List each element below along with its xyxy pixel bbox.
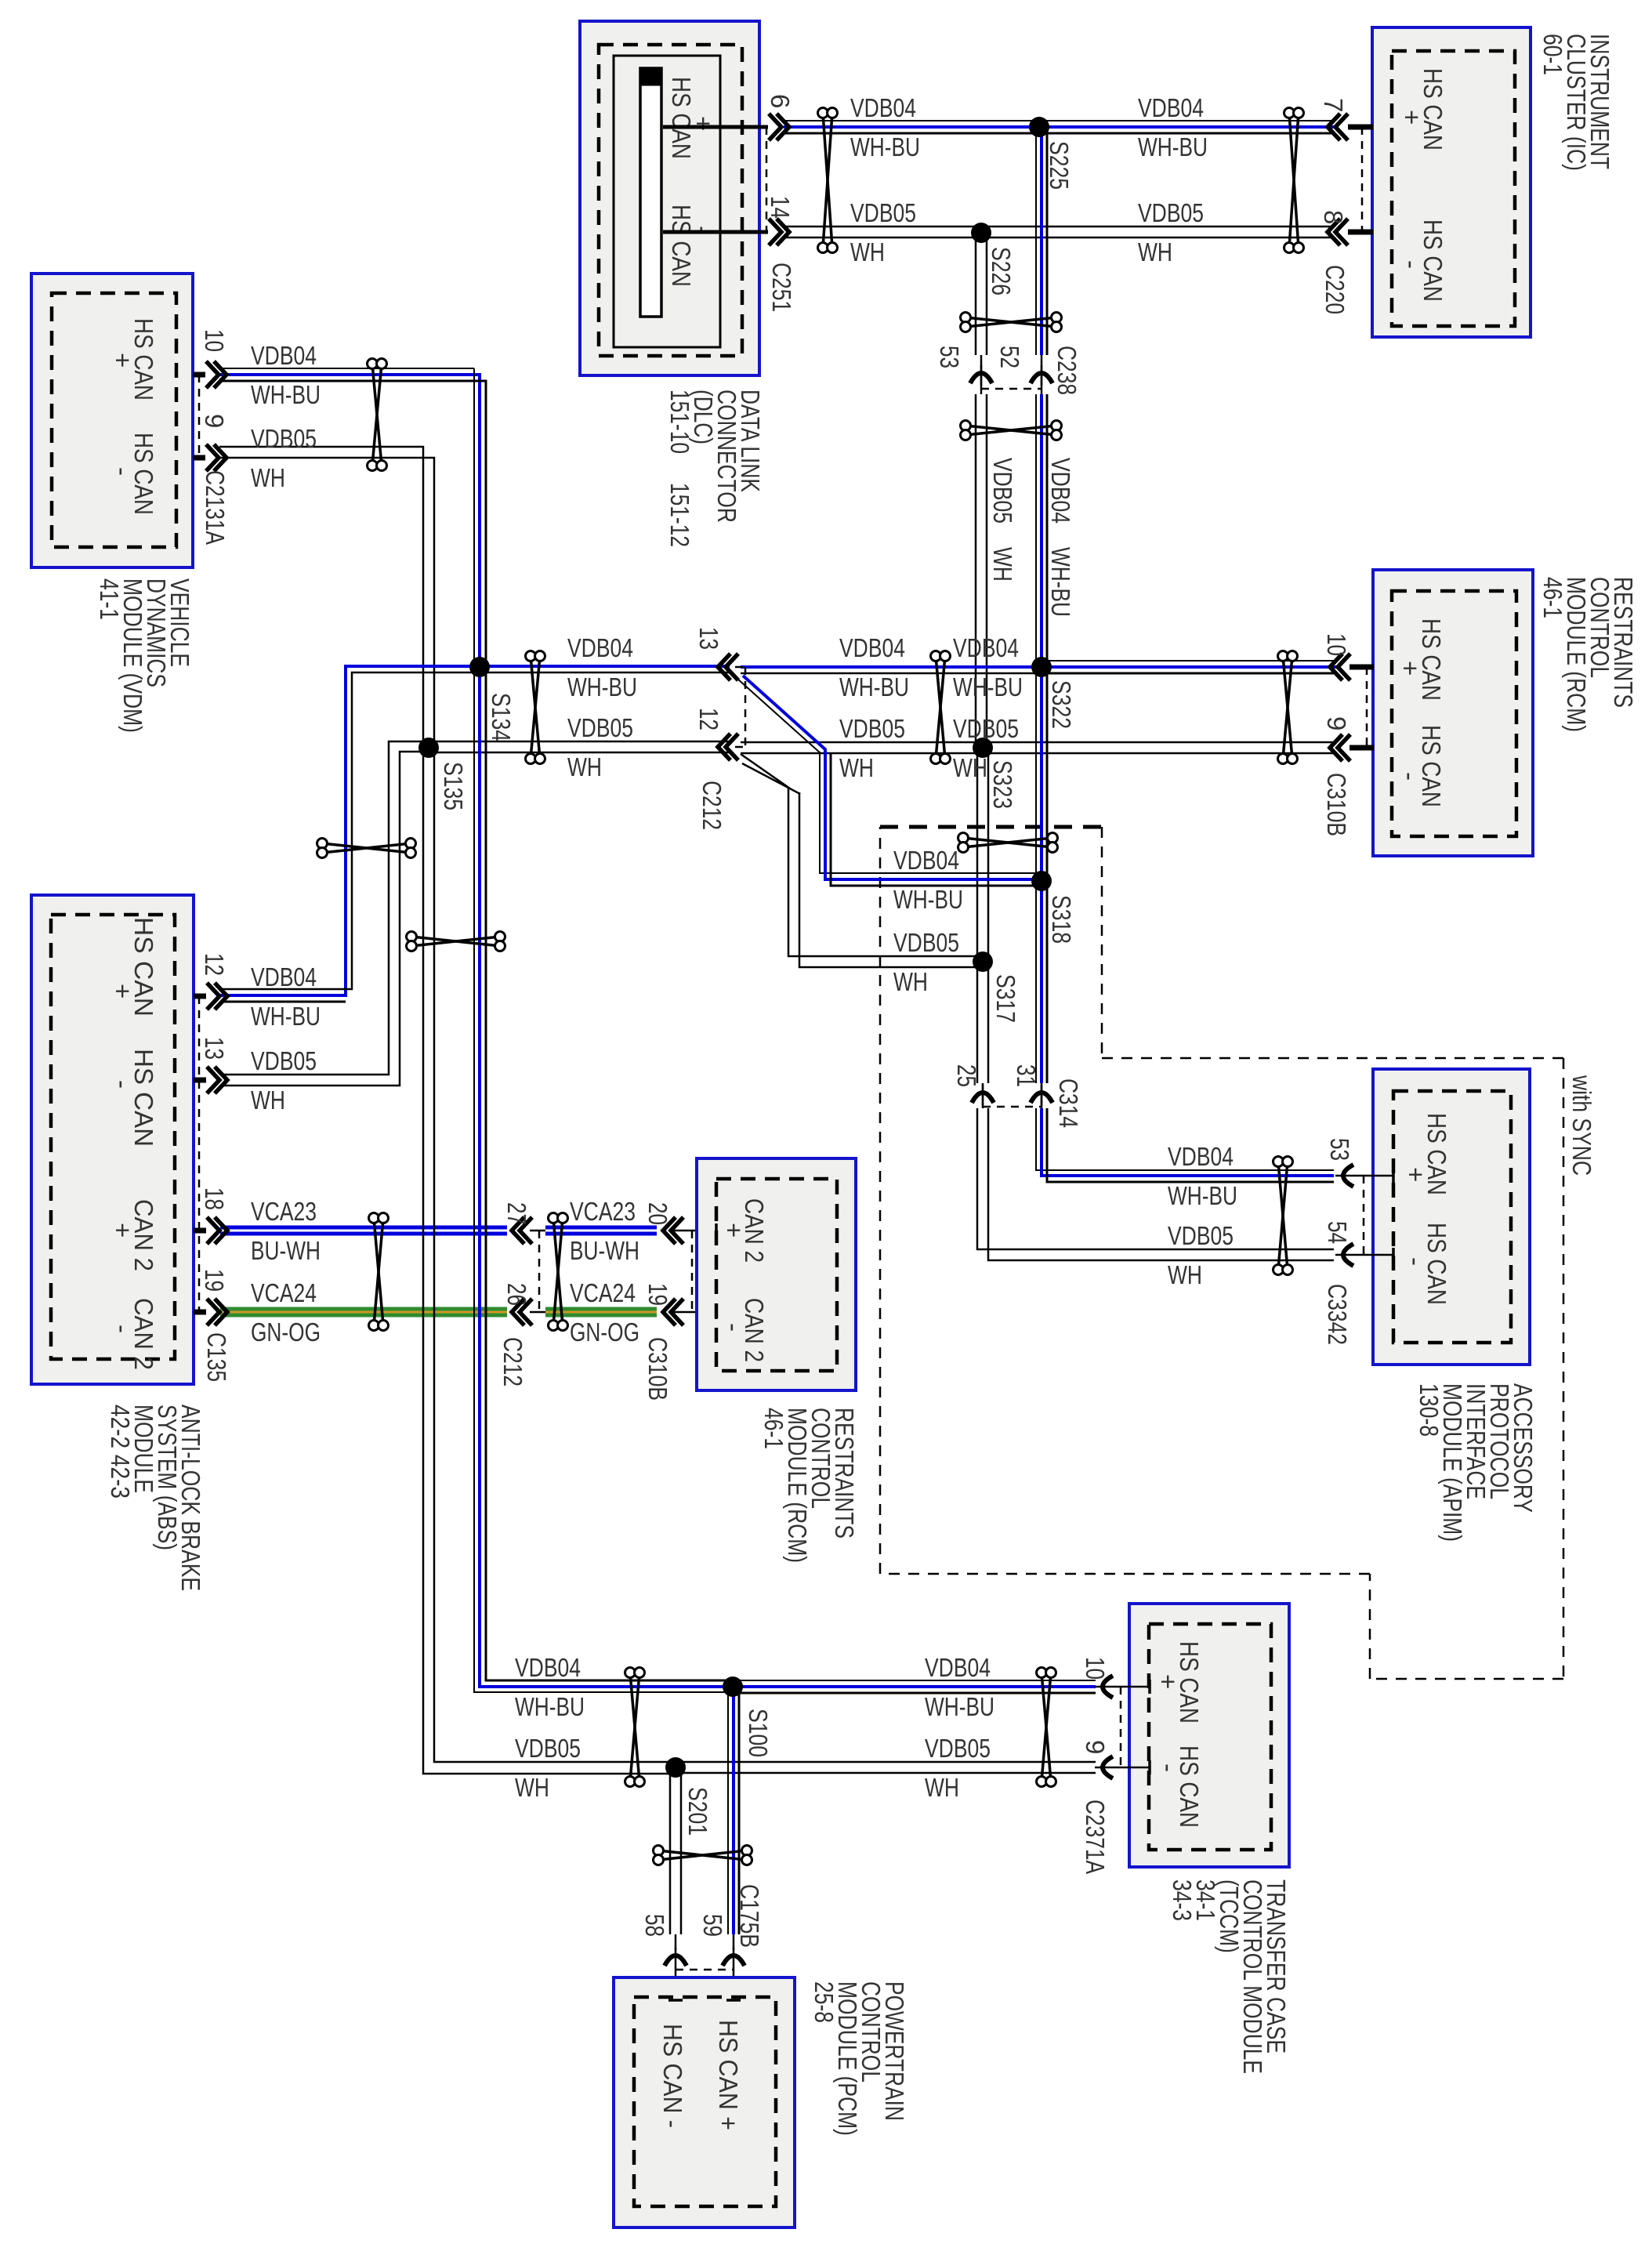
svg-text:WH-BU: WH-BU — [953, 672, 1023, 701]
svg-text:VDB04: VDB04 — [1046, 458, 1075, 524]
svg-text:VCA24: VCA24 — [570, 1278, 636, 1307]
svg-text:WH-BU: WH-BU — [1046, 547, 1075, 617]
wire labels ABS HS CAN pins — [251, 962, 321, 1115]
svg-text:12: 12 — [200, 953, 229, 976]
label with SYNC — [1567, 1075, 1596, 1176]
wire labels S322/S323 to RCM — [953, 633, 1023, 782]
wire VCA24 GN-OG C212 pin26 to RCM pin19 — [545, 1307, 716, 1318]
svg-text:58: 58 — [640, 1914, 669, 1937]
connector C2131A pins VDM — [193, 329, 230, 545]
wire labels VDM to S134/S135 — [251, 341, 321, 492]
wire labels on vertical wires below C238 — [988, 458, 1075, 617]
svg-text:WH-BU: WH-BU — [925, 1692, 994, 1721]
wire labels DLC to S225/S226 — [850, 93, 920, 266]
svg-text:S317: S317 — [991, 974, 1020, 1023]
wire VDB05 WH S201 down to C175B and PCM pin58 — [670, 1767, 681, 2000]
connector C175B pins — [640, 1884, 764, 2000]
connector C238 in-line on vertical wires — [935, 346, 1081, 395]
svg-text:WH: WH — [850, 237, 885, 266]
module box Accessory Protocol Interface Module APIM — [1373, 1069, 1530, 1365]
wire VDB05 WH S201 to TCCM pin9 — [676, 1762, 1096, 1773]
svg-text:42-2 42-3: 42-2 42-3 — [106, 1405, 135, 1499]
wire VDB05 WH S323 to RCM pin9 — [983, 742, 1337, 753]
svg-text:VDB05: VDB05 — [893, 928, 959, 957]
svg-text:VDB04: VDB04 — [850, 93, 916, 122]
svg-text:WH-BU: WH-BU — [850, 132, 920, 161]
wire VDB04 WH-BU S100 to TCCM pin10 — [733, 1680, 1096, 1693]
svg-text:HS CAN: HS CAN — [129, 917, 158, 1017]
svg-text:-: - — [1396, 772, 1425, 781]
wire VCA23 BU-WH ABS pin18 to C212 pin27 — [220, 1226, 507, 1236]
svg-text:VDB05: VDB05 — [839, 714, 905, 743]
wire labels trunk to S100/S201 — [515, 1653, 585, 1802]
svg-text:WH: WH — [839, 753, 874, 782]
svg-text:VDB05: VDB05 — [567, 713, 633, 742]
svg-text:9: 9 — [200, 414, 229, 428]
svg-text:VDB04: VDB04 — [567, 633, 633, 662]
wire VDB04 WH-BU S322 to RCM pin10 — [1042, 661, 1337, 673]
wire labels S225/S226 to IC — [1138, 93, 1208, 266]
svg-text:60-1: 60-1 — [1538, 34, 1567, 75]
svg-text:54: 54 — [1323, 1221, 1352, 1244]
svg-text:+: + — [719, 1223, 748, 1238]
connector C220 pins IC — [1319, 98, 1373, 314]
svg-text:GN-OG: GN-OG — [251, 1318, 321, 1347]
connector C3342 pins APIM — [1323, 1138, 1393, 1345]
wire VDB05 WH C212 pin12 diagonal branch to S317 — [741, 754, 983, 967]
svg-text:8: 8 — [1319, 210, 1348, 224]
svg-text:HS CAN: HS CAN — [129, 1049, 158, 1147]
svg-text:41-1: 41-1 — [95, 578, 124, 620]
wire VCA24 GN-OG ABS pin19 to C212 pin26 — [220, 1307, 507, 1318]
svg-text:VCA24: VCA24 — [251, 1278, 317, 1307]
svg-text:VDB04: VDB04 — [515, 1653, 581, 1682]
splice junction S318 — [1031, 871, 1076, 944]
svg-text:VDB05: VDB05 — [925, 1734, 991, 1763]
svg-text:C212: C212 — [697, 781, 726, 830]
twisted pair symbol — [961, 313, 1062, 332]
splice junction S322 — [1031, 657, 1076, 729]
svg-text:+: + — [1154, 1674, 1183, 1689]
module box Data Link Connector DLC — [580, 21, 759, 375]
wire VDB04 WH-BU C212 pin13 diagonal branch to S318 — [737, 676, 1042, 886]
svg-text:with SYNC: with SYNC — [1567, 1075, 1596, 1176]
svg-text:C251: C251 — [767, 263, 796, 312]
svg-text:9: 9 — [1081, 1740, 1110, 1754]
svg-text:13: 13 — [200, 1037, 229, 1060]
svg-text:12: 12 — [694, 708, 723, 730]
svg-text:S323: S323 — [988, 760, 1017, 809]
svg-text:S134: S134 — [487, 693, 516, 741]
wire labels C212 to S322/S323 — [839, 633, 909, 782]
svg-text:18: 18 — [200, 1187, 229, 1210]
svg-text:VDB04: VDB04 — [1168, 1142, 1234, 1171]
svg-text:13: 13 — [694, 627, 723, 650]
twisted pair symbol — [961, 421, 1062, 440]
svg-text:53: 53 — [1325, 1138, 1354, 1161]
svg-text:VDB05: VDB05 — [251, 424, 317, 453]
svg-text:VDB04: VDB04 — [1138, 93, 1204, 122]
svg-text:31: 31 — [1012, 1064, 1041, 1087]
svg-text:WH-BU: WH-BU — [251, 380, 321, 409]
label RESTRAINTS CONTROL MODULE (RCM) 46-1 lower — [759, 1408, 859, 1563]
svg-text:WH: WH — [988, 547, 1017, 582]
svg-text:C238: C238 — [1052, 346, 1081, 395]
wire VDB04 WH-BU S322 down to S318 — [1036, 667, 1047, 881]
svg-text:19: 19 — [200, 1269, 229, 1292]
wire labels S100/S201 to TCCM — [925, 1653, 994, 1802]
svg-text:WH-BU: WH-BU — [251, 1002, 321, 1031]
wire VDB04 WH-BU S225 down to S322 through C238 — [1036, 127, 1047, 667]
svg-text:S201: S201 — [683, 1787, 712, 1836]
svg-text:9: 9 — [1322, 716, 1351, 730]
svg-text:VDB04: VDB04 — [925, 1653, 991, 1682]
svg-text:6: 6 — [766, 94, 795, 108]
twisted pair symbol — [549, 1213, 568, 1331]
twisted pair symbol — [526, 651, 545, 764]
wire VDB05 WH S323 down to S317 — [977, 748, 988, 962]
twisted pair symbol — [818, 108, 838, 253]
svg-text:34-3: 34-3 — [1168, 1879, 1197, 1921]
wire VDB04 WH-BU DLC pin6 to IC pin7 via S225 — [784, 121, 1334, 133]
svg-text:151-10: 151-10 — [665, 390, 694, 454]
svg-text:HS CAN: HS CAN — [1417, 618, 1446, 701]
svg-text:130-8: 130-8 — [1415, 1383, 1444, 1437]
wire VDB05 WH DLC pin14 to IC pin8 via S226 — [784, 227, 1334, 237]
svg-text:S135: S135 — [439, 762, 468, 810]
svg-text:-: - — [108, 1080, 137, 1089]
svg-text:VDB04: VDB04 — [251, 341, 317, 370]
label DATA LINK CONNECTOR (DLC) 151-10 151-12 — [665, 390, 765, 547]
svg-text:14: 14 — [766, 196, 795, 219]
label ACCESSORY PROTOCOL INTERFACE MODULE (APIM) 130-8 — [1415, 1383, 1538, 1542]
svg-text:VDB04: VDB04 — [953, 633, 1019, 662]
svg-text:-: - — [1401, 1257, 1430, 1266]
wire VCA23 BU-WH C212 pin27 to RCM pin20 — [545, 1226, 716, 1236]
svg-text:BU-WH: BU-WH — [251, 1236, 321, 1265]
twisted pair symbol — [1278, 651, 1298, 764]
svg-text:46-1: 46-1 — [1538, 577, 1567, 618]
wire labels ABS CAN2 pins — [251, 1197, 321, 1347]
wire labels C212 to RCM CAN2 — [570, 1197, 639, 1347]
wire VDB05 WH trunk S135 down to S201 — [423, 748, 676, 1774]
svg-text:S226: S226 — [987, 247, 1016, 295]
svg-text:WH-BU: WH-BU — [1138, 132, 1208, 161]
svg-text:27: 27 — [502, 1202, 531, 1225]
svg-text:VCA23: VCA23 — [251, 1197, 317, 1226]
svg-text:151-12: 151-12 — [665, 483, 694, 547]
svg-text:CAN 2: CAN 2 — [129, 1298, 158, 1370]
module box Restraints Control Module RCM upper — [1373, 570, 1533, 856]
label INSTRUMENT CLUSTER (IC) 60-1 — [1538, 34, 1614, 171]
svg-text:WH: WH — [893, 967, 928, 996]
svg-text:46-1: 46-1 — [759, 1408, 788, 1449]
svg-text:WH-BU: WH-BU — [567, 672, 637, 701]
with SYNC option region dashed boundary — [880, 827, 1563, 1679]
svg-text:-: - — [108, 467, 137, 476]
label VEHICLE DYNAMICS MODULE (VDM) 41-1 — [95, 578, 194, 733]
label POWERTRAIN CONTROL MODULE (PCM) 25-8 — [810, 1981, 909, 2136]
wire VDB04 WH-BU C212 pin13 to S322 — [741, 667, 1042, 673]
svg-text:53: 53 — [935, 346, 964, 368]
svg-text:S225: S225 — [1045, 141, 1074, 190]
wire labels into S318/S317 — [893, 846, 963, 996]
svg-text:HS CAN: HS CAN — [667, 205, 696, 287]
svg-text:WH: WH — [925, 1773, 959, 1802]
wire labels S134/S135 to C212 — [567, 633, 637, 781]
connector C2371A pins TCCM — [1081, 1657, 1150, 1874]
svg-text:+: + — [1401, 1167, 1430, 1182]
svg-text:VDB04: VDB04 — [893, 846, 959, 875]
module box Vehicle Dynamics Module VDM — [31, 274, 193, 567]
twisted pair symbol — [958, 833, 1058, 853]
svg-text:WH: WH — [1138, 237, 1172, 266]
svg-text:WH: WH — [1168, 1260, 1202, 1289]
svg-text:S322: S322 — [1047, 680, 1076, 729]
svg-text:S100: S100 — [744, 1709, 773, 1757]
svg-text:WH: WH — [251, 463, 285, 492]
wire VDB05 WH S226 down to S323 through C238 — [976, 233, 987, 748]
svg-text:C220: C220 — [1321, 265, 1349, 314]
svg-text:-: - — [1397, 260, 1426, 269]
svg-text:VDB05: VDB05 — [1168, 1221, 1234, 1250]
svg-text:C3342: C3342 — [1323, 1284, 1352, 1345]
twisted pair symbol — [317, 839, 416, 858]
svg-text:25-8: 25-8 — [810, 1981, 839, 2023]
connector C310B pins RCM CAN2 — [643, 1202, 716, 1401]
module box Powertrain Control Module PCM — [614, 1977, 795, 2227]
connector C251 pins DLC — [663, 94, 796, 312]
splice junction S135 — [418, 738, 468, 810]
twisted pair symbol — [931, 651, 951, 764]
svg-text:WH-BU: WH-BU — [893, 885, 963, 914]
twisted pair symbol — [625, 1668, 645, 1787]
svg-text:+: + — [1397, 110, 1426, 125]
label RESTRAINTS CONTROL MODULE (RCM) 46-1 upper — [1538, 577, 1638, 732]
wire VDB04 WH-BU S134 to C212 pin13 — [480, 666, 730, 672]
module box Restraints Control Module RCM lower CAN2 — [697, 1158, 856, 1390]
svg-text:52: 52 — [995, 346, 1024, 368]
svg-text:VDB04: VDB04 — [839, 633, 905, 662]
svg-text:25: 25 — [952, 1064, 981, 1087]
wire VDB04 WH-BU VDM pin10 right and down to S134 — [219, 368, 486, 667]
svg-text:HS CAN -: HS CAN - — [658, 2024, 687, 2128]
wire VDB05 WH C212 pin12 to S323 — [741, 742, 983, 753]
svg-text:VDB05: VDB05 — [515, 1734, 581, 1763]
svg-text:10: 10 — [1322, 633, 1351, 656]
splice junction S323 — [973, 738, 1017, 809]
svg-text:10: 10 — [200, 329, 229, 352]
svg-text:C314: C314 — [1054, 1078, 1083, 1128]
module box Transfer Case Control Module TCCM — [1129, 1604, 1289, 1867]
wire VDB05 WH S317 down through C314 to APIM pin54 — [977, 962, 1334, 1260]
connector C135 pins ABS — [194, 953, 231, 1382]
twisted pair symbol — [1284, 108, 1304, 253]
wire VDB05 WH VDM pin9 right and down to S135 — [219, 447, 434, 748]
svg-text:+: + — [108, 1223, 137, 1238]
svg-text:HS CAN: HS CAN — [1417, 725, 1446, 807]
module box Anti-lock Brake System ABS — [31, 895, 194, 1384]
wire VDB05 WH S135 branch to ABS pin13 — [220, 741, 429, 1086]
svg-text:26: 26 — [502, 1283, 531, 1306]
connector C310B pins RCM upper — [1322, 633, 1374, 836]
svg-text:VDB05: VDB05 — [850, 198, 916, 227]
twisted pair symbol — [407, 932, 505, 952]
wire VDB05 WH S135 to C212 pin12 — [429, 741, 730, 752]
splice junction S134 — [469, 657, 516, 741]
svg-text:C310B: C310B — [643, 1337, 672, 1401]
svg-text:S318: S318 — [1047, 895, 1076, 944]
svg-text:C212: C212 — [498, 1337, 527, 1386]
connector C212 in-line pins 13 and 12 — [694, 627, 745, 830]
svg-text:20: 20 — [643, 1202, 672, 1225]
svg-text:VDB05: VDB05 — [1138, 198, 1204, 227]
wire labels C314 to APIM — [1168, 1142, 1237, 1289]
svg-text:10: 10 — [1081, 1657, 1110, 1680]
svg-text:-: - — [1154, 1763, 1183, 1772]
wire VDB04 WH-BU S134 branch to ABS pin12 — [220, 666, 480, 1002]
svg-text:C135: C135 — [202, 1332, 231, 1382]
module box Instrument Cluster IC — [1372, 27, 1531, 337]
twisted pair symbol — [368, 359, 387, 471]
svg-text:-: - — [719, 1323, 748, 1332]
twisted pair symbol — [1037, 1668, 1056, 1787]
svg-text:59: 59 — [698, 1914, 727, 1937]
svg-text:C175B: C175B — [735, 1884, 764, 1948]
label TRANSFER CASE CONTROL MODULE (TCCM) 34-1 34-3 — [1168, 1879, 1291, 2074]
svg-text:C2131A: C2131A — [201, 470, 230, 545]
svg-text:BU-WH: BU-WH — [570, 1236, 639, 1265]
svg-text:WH-BU: WH-BU — [515, 1692, 585, 1721]
svg-text:+: + — [108, 353, 137, 368]
svg-text:7: 7 — [1319, 98, 1348, 112]
svg-text:19: 19 — [643, 1283, 672, 1306]
connector C212 pins CAN2 — [498, 1202, 545, 1386]
label ANTI-LOCK BRAKE SYSTEM (ABS) MODULE 42-2 42-3 — [106, 1405, 205, 1591]
splice junction S225 — [1029, 117, 1074, 190]
splice junction S317 — [973, 952, 1020, 1023]
twisted pair symbol — [1273, 1157, 1293, 1275]
svg-text:VCA23: VCA23 — [570, 1197, 636, 1226]
svg-text:+: + — [108, 984, 137, 999]
svg-text:HS CAN +: HS CAN + — [714, 2020, 743, 2130]
svg-text:C2371A: C2371A — [1081, 1800, 1110, 1874]
wire VDB04 WH-BU trunk S134 down to S100 — [474, 667, 733, 1692]
svg-text:VDB05: VDB05 — [988, 458, 1017, 524]
splice junction S201 — [665, 1757, 712, 1836]
splice junction S100 — [723, 1676, 773, 1757]
svg-text:HS CAN: HS CAN — [1175, 1745, 1204, 1828]
twisted pair symbol — [654, 1846, 752, 1865]
twisted pair symbol — [369, 1213, 389, 1331]
svg-text:WH: WH — [567, 752, 602, 781]
svg-text:WH-BU: WH-BU — [839, 672, 909, 701]
splice junction S226 — [971, 223, 1016, 295]
wire VDB04 WH-BU S318 down through C314 to APIM pin53 — [1036, 881, 1334, 1182]
svg-text:VDB05: VDB05 — [251, 1046, 317, 1075]
wire VDB04 WH-BU S100 down to C175B and PCM pin59 — [728, 1687, 739, 2000]
svg-text:HS CAN: HS CAN — [1422, 1113, 1451, 1195]
svg-text:C310B: C310B — [1322, 773, 1351, 836]
svg-text:WH-BU: WH-BU — [1168, 1181, 1237, 1210]
connector C314 in-line on vertical wires — [952, 1064, 1083, 1128]
svg-text:+: + — [1396, 661, 1425, 676]
svg-text:VDB04: VDB04 — [251, 962, 317, 991]
svg-text:-: - — [108, 1325, 137, 1333]
svg-text:WH: WH — [251, 1086, 285, 1115]
svg-text:GN-OG: GN-OG — [570, 1318, 639, 1347]
svg-text:WH: WH — [515, 1773, 549, 1802]
